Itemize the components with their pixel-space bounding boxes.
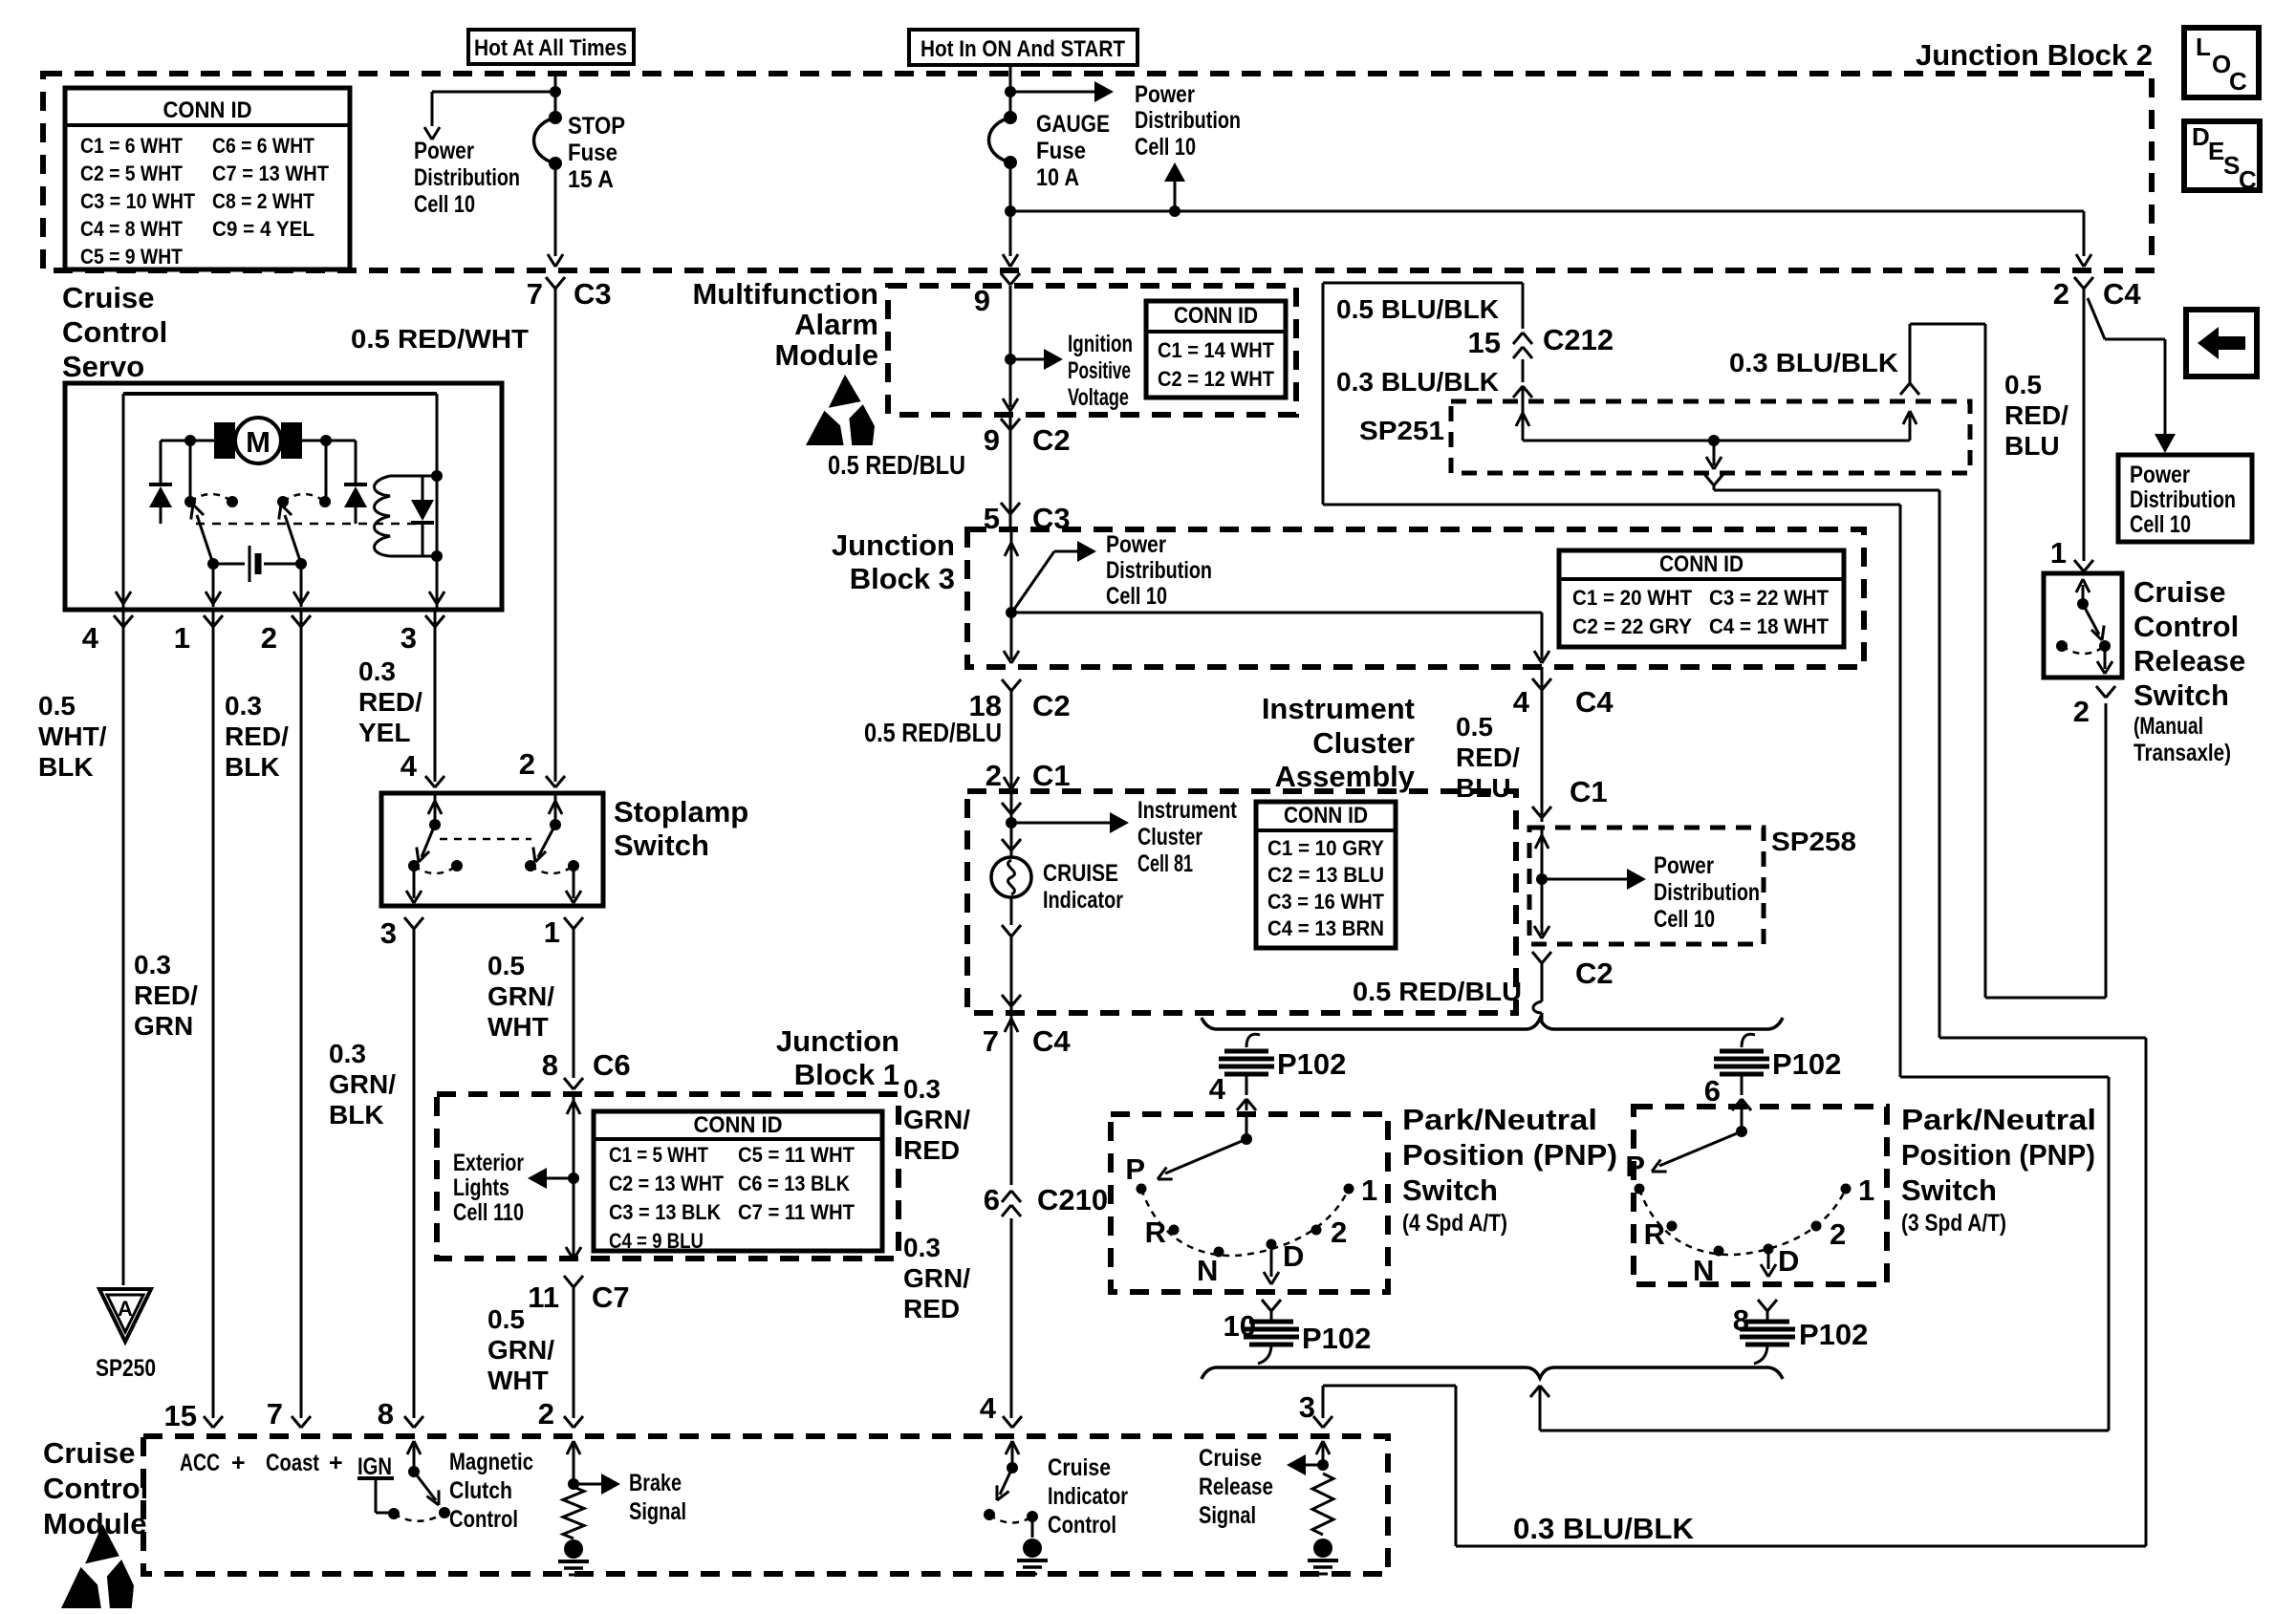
svg-text:Control: Control bbox=[43, 1472, 148, 1505]
svg-text:Distribution: Distribution bbox=[414, 164, 520, 191]
svg-text:Distribution: Distribution bbox=[1654, 879, 1760, 906]
svg-text:C210: C210 bbox=[1037, 1183, 1108, 1216]
svg-text:RED/: RED/ bbox=[134, 980, 198, 1010]
svg-text:Power: Power bbox=[1135, 81, 1195, 108]
svg-text:BLU: BLU bbox=[1456, 773, 1511, 803]
svg-text:Cluster: Cluster bbox=[1312, 726, 1415, 760]
svg-text:Instrument: Instrument bbox=[1262, 692, 1415, 725]
svg-text:C1 = 20 WHT: C1 = 20 WHT bbox=[1572, 586, 1693, 610]
svg-text:WHT: WHT bbox=[487, 1366, 549, 1395]
svg-text:0.5: 0.5 bbox=[38, 691, 76, 721]
svg-text:C4 = 8 WHT: C4 = 8 WHT bbox=[80, 217, 183, 241]
svg-text:Fuse: Fuse bbox=[568, 140, 617, 166]
svg-text:Exterior: Exterior bbox=[453, 1150, 524, 1176]
svg-text:C2 = 22 GRY: C2 = 22 GRY bbox=[1572, 614, 1692, 638]
svg-text:Power: Power bbox=[1654, 852, 1714, 879]
svg-text:7: 7 bbox=[527, 277, 543, 311]
svg-text:1: 1 bbox=[174, 621, 190, 655]
svg-text:Instrument: Instrument bbox=[1137, 797, 1238, 824]
svg-text:0.5 RED/WHT: 0.5 RED/WHT bbox=[351, 324, 529, 354]
svg-text:7: 7 bbox=[267, 1397, 283, 1431]
svg-text:P102: P102 bbox=[1277, 1047, 1346, 1081]
svg-text:CONN ID: CONN ID bbox=[1284, 803, 1368, 829]
svg-text:8: 8 bbox=[378, 1397, 394, 1431]
svg-text:7: 7 bbox=[983, 1024, 999, 1058]
svg-text:C6 = 13 BLK: C6 = 13 BLK bbox=[738, 1172, 850, 1195]
svg-text:N: N bbox=[1693, 1254, 1714, 1287]
svg-text:3: 3 bbox=[380, 916, 397, 950]
svg-text:0.5: 0.5 bbox=[1456, 712, 1493, 742]
svg-text:WHT: WHT bbox=[487, 1012, 549, 1042]
svg-text:C6 = 6 WHT: C6 = 6 WHT bbox=[212, 134, 314, 158]
svg-text:C3 = 10 WHT: C3 = 10 WHT bbox=[80, 189, 195, 213]
svg-text:0.5 RED/BLU: 0.5 RED/BLU bbox=[828, 450, 965, 480]
svg-text:2: 2 bbox=[2073, 695, 2090, 728]
svg-text:C2 = 13 BLU: C2 = 13 BLU bbox=[1267, 863, 1384, 887]
svg-text:BLK: BLK bbox=[38, 752, 94, 782]
svg-text:SP250: SP250 bbox=[96, 1355, 156, 1382]
svg-text:Hot In ON And START: Hot In ON And START bbox=[921, 36, 1125, 62]
svg-text:(3 Spd A/T): (3 Spd A/T) bbox=[1901, 1210, 2006, 1237]
svg-text:C9 = 4 YEL: C9 = 4 YEL bbox=[212, 217, 314, 241]
svg-text:C1: C1 bbox=[1032, 759, 1071, 792]
svg-text:Coast: Coast bbox=[266, 1450, 320, 1476]
svg-text:3: 3 bbox=[401, 621, 417, 655]
svg-text:6: 6 bbox=[1704, 1074, 1721, 1108]
svg-text:Power: Power bbox=[414, 138, 474, 164]
svg-text:2: 2 bbox=[538, 1397, 554, 1431]
svg-text:Stoplamp: Stoplamp bbox=[614, 795, 748, 829]
svg-text:4: 4 bbox=[1209, 1072, 1226, 1106]
svg-text:E: E bbox=[2208, 137, 2224, 165]
svg-text:C4: C4 bbox=[2103, 277, 2141, 311]
svg-text:Multifunction: Multifunction bbox=[692, 277, 878, 311]
svg-text:Clutch: Clutch bbox=[449, 1477, 512, 1504]
svg-text:CONN ID: CONN ID bbox=[163, 97, 252, 123]
svg-text:Voltage: Voltage bbox=[1068, 384, 1129, 411]
svg-text:1: 1 bbox=[2050, 536, 2067, 570]
svg-text:10 A: 10 A bbox=[1036, 164, 1079, 191]
svg-text:Alarm: Alarm bbox=[794, 308, 878, 341]
svg-text:Control: Control bbox=[449, 1506, 518, 1533]
svg-text:L: L bbox=[2196, 32, 2211, 61]
svg-text:BLK: BLK bbox=[225, 752, 280, 782]
svg-text:0.5 BLU/BLK: 0.5 BLU/BLK bbox=[1336, 294, 1499, 324]
svg-text:C4 = 9 BLU: C4 = 9 BLU bbox=[609, 1229, 704, 1253]
svg-text:D: D bbox=[1778, 1244, 1799, 1278]
svg-text:Distribution: Distribution bbox=[1135, 107, 1241, 134]
svg-text:R: R bbox=[1145, 1216, 1166, 1249]
svg-text:C3 = 22 WHT: C3 = 22 WHT bbox=[1709, 586, 1830, 610]
svg-text:C6: C6 bbox=[593, 1048, 631, 1082]
svg-text:C4 = 13 BRN: C4 = 13 BRN bbox=[1267, 916, 1384, 940]
svg-text:C8 = 2 WHT: C8 = 2 WHT bbox=[212, 189, 314, 213]
svg-text:C2: C2 bbox=[1032, 689, 1071, 722]
svg-text:15 A: 15 A bbox=[568, 166, 614, 193]
svg-text:Control: Control bbox=[62, 315, 167, 349]
svg-text:4: 4 bbox=[401, 749, 418, 783]
svg-text:C1 = 10 GRY: C1 = 10 GRY bbox=[1267, 836, 1384, 860]
svg-text:Module: Module bbox=[43, 1507, 147, 1540]
svg-text:Transaxle): Transaxle) bbox=[2134, 740, 2231, 766]
svg-text:R: R bbox=[1644, 1217, 1665, 1251]
svg-text:Cruise: Cruise bbox=[1048, 1454, 1111, 1481]
svg-text:Cruise: Cruise bbox=[1199, 1445, 1262, 1472]
svg-text:9: 9 bbox=[984, 423, 1000, 457]
svg-text:4: 4 bbox=[1513, 685, 1530, 719]
svg-text:RED/: RED/ bbox=[1456, 742, 1520, 772]
svg-text:C1 = 6 WHT: C1 = 6 WHT bbox=[80, 134, 183, 158]
svg-text:Indicator: Indicator bbox=[1043, 887, 1123, 914]
svg-text:BLU: BLU bbox=[2004, 431, 2060, 461]
svg-text:C1 = 14 WHT: C1 = 14 WHT bbox=[1158, 338, 1275, 362]
svg-text:Fuse: Fuse bbox=[1036, 138, 1086, 164]
svg-text:D: D bbox=[1283, 1239, 1304, 1273]
svg-text:Assembly: Assembly bbox=[1275, 760, 1416, 793]
svg-text:+: + bbox=[329, 1450, 343, 1476]
svg-text:C4 = 18 WHT: C4 = 18 WHT bbox=[1709, 614, 1830, 638]
svg-text:2: 2 bbox=[261, 621, 277, 655]
svg-text:ACC: ACC bbox=[180, 1450, 220, 1476]
svg-text:RED: RED bbox=[903, 1135, 960, 1165]
svg-text:Junction: Junction bbox=[832, 528, 955, 562]
svg-text:11: 11 bbox=[528, 1280, 559, 1314]
svg-text:0.5: 0.5 bbox=[487, 1304, 525, 1334]
svg-text:Cell 10: Cell 10 bbox=[1135, 134, 1196, 161]
svg-text:Power: Power bbox=[1106, 531, 1166, 558]
svg-text:Indicator: Indicator bbox=[1048, 1483, 1128, 1510]
svg-text:Park/Neutral: Park/Neutral bbox=[1901, 1103, 2096, 1136]
svg-text:4: 4 bbox=[980, 1391, 997, 1425]
svg-text:0.3: 0.3 bbox=[358, 656, 396, 686]
svg-text:Distribution: Distribution bbox=[1106, 557, 1212, 584]
svg-text:+: + bbox=[231, 1450, 246, 1476]
svg-text:Cell 81: Cell 81 bbox=[1137, 850, 1193, 877]
svg-text:SP251: SP251 bbox=[1359, 416, 1444, 445]
svg-text:0.5 RED/BLU: 0.5 RED/BLU bbox=[1353, 977, 1522, 1006]
svg-text:C212: C212 bbox=[1543, 323, 1614, 356]
svg-text:RED: RED bbox=[903, 1294, 960, 1323]
svg-text:8: 8 bbox=[1733, 1303, 1749, 1337]
svg-text:P102: P102 bbox=[1302, 1322, 1371, 1355]
svg-text:4: 4 bbox=[82, 621, 99, 655]
svg-text:C1 = 5 WHT: C1 = 5 WHT bbox=[609, 1143, 708, 1167]
svg-text:Power: Power bbox=[2130, 462, 2190, 488]
svg-text:Control: Control bbox=[1048, 1512, 1116, 1539]
svg-text:0.3: 0.3 bbox=[134, 950, 171, 979]
svg-text:C7: C7 bbox=[592, 1280, 630, 1314]
svg-text:Lights: Lights bbox=[453, 1174, 509, 1201]
svg-text:RED/: RED/ bbox=[358, 687, 422, 717]
svg-text:C3 = 16 WHT: C3 = 16 WHT bbox=[1267, 890, 1385, 914]
svg-text:Signal: Signal bbox=[1199, 1502, 1256, 1529]
svg-text:1: 1 bbox=[1361, 1173, 1377, 1207]
svg-text:WHT/: WHT/ bbox=[38, 721, 107, 751]
svg-text:0.3 BLU/BLK: 0.3 BLU/BLK bbox=[1336, 367, 1499, 397]
svg-text:C4: C4 bbox=[1032, 1024, 1071, 1058]
svg-text:C2: C2 bbox=[1575, 957, 1614, 990]
svg-text:C: C bbox=[2229, 67, 2247, 96]
svg-text:0.3 BLU/BLK: 0.3 BLU/BLK bbox=[1729, 348, 1898, 377]
svg-text:2: 2 bbox=[986, 759, 1002, 792]
svg-text:Magnetic: Magnetic bbox=[449, 1449, 533, 1475]
svg-text:Position (PNP): Position (PNP) bbox=[1901, 1138, 2095, 1172]
svg-text:P: P bbox=[1125, 1152, 1145, 1186]
svg-text:2: 2 bbox=[1830, 1217, 1846, 1251]
svg-text:C4: C4 bbox=[1575, 685, 1614, 719]
svg-text:STOP: STOP bbox=[568, 113, 625, 140]
svg-text:GRN/: GRN/ bbox=[903, 1263, 970, 1293]
svg-text:GRN: GRN bbox=[134, 1011, 193, 1041]
svg-text:YEL: YEL bbox=[358, 718, 410, 747]
svg-text:C2 = 5 WHT: C2 = 5 WHT bbox=[80, 161, 183, 185]
svg-text:A: A bbox=[118, 1297, 133, 1321]
svg-text:C3 = 13 BLK: C3 = 13 BLK bbox=[609, 1200, 721, 1224]
svg-text:Switch: Switch bbox=[614, 829, 709, 862]
svg-text:IGN: IGN bbox=[357, 1453, 392, 1480]
svg-text:C3: C3 bbox=[574, 277, 612, 311]
svg-text:Park/Neutral: Park/Neutral bbox=[1402, 1103, 1597, 1136]
svg-text:Switch: Switch bbox=[1901, 1173, 1997, 1207]
svg-text:1: 1 bbox=[1858, 1173, 1874, 1207]
svg-text:Cell 10: Cell 10 bbox=[414, 191, 475, 218]
svg-text:2: 2 bbox=[2053, 277, 2069, 311]
svg-text:0.3 BLU/BLK: 0.3 BLU/BLK bbox=[1513, 1512, 1695, 1545]
svg-text:Block 1: Block 1 bbox=[794, 1058, 899, 1091]
svg-text:0.5: 0.5 bbox=[487, 951, 525, 980]
svg-text:C7 = 13 WHT: C7 = 13 WHT bbox=[212, 161, 330, 185]
svg-text:GRN/: GRN/ bbox=[487, 981, 554, 1011]
svg-text:Position (PNP): Position (PNP) bbox=[1402, 1138, 1617, 1172]
svg-text:0.3: 0.3 bbox=[903, 1233, 941, 1262]
svg-text:Ignition: Ignition bbox=[1068, 331, 1133, 357]
svg-text:C2 = 12 WHT: C2 = 12 WHT bbox=[1158, 367, 1275, 391]
svg-text:C2 = 13 WHT: C2 = 13 WHT bbox=[609, 1172, 724, 1195]
svg-text:0.3: 0.3 bbox=[903, 1074, 941, 1104]
svg-text:SP258: SP258 bbox=[1771, 827, 1856, 856]
svg-text:RED/: RED/ bbox=[2004, 400, 2069, 430]
svg-text:Cruise: Cruise bbox=[43, 1436, 135, 1470]
svg-text:GRN/: GRN/ bbox=[487, 1335, 554, 1365]
svg-text:CONN ID: CONN ID bbox=[1659, 551, 1744, 577]
svg-text:Cell 10: Cell 10 bbox=[1654, 906, 1715, 933]
svg-text:S: S bbox=[2223, 151, 2240, 180]
svg-text:8: 8 bbox=[542, 1048, 558, 1082]
svg-text:9: 9 bbox=[974, 284, 990, 317]
svg-text:M: M bbox=[246, 425, 271, 459]
svg-text:BLK: BLK bbox=[329, 1100, 384, 1130]
svg-text:Control: Control bbox=[2134, 610, 2239, 643]
svg-text:C1: C1 bbox=[1570, 775, 1608, 808]
svg-text:Brake: Brake bbox=[629, 1470, 682, 1496]
svg-text:D: D bbox=[2192, 122, 2210, 151]
svg-text:15: 15 bbox=[164, 1399, 197, 1432]
svg-text:CONN ID: CONN ID bbox=[694, 1112, 783, 1138]
svg-text:Switch: Switch bbox=[1402, 1173, 1498, 1207]
svg-text:Release: Release bbox=[1199, 1474, 1273, 1500]
svg-text:GRN/: GRN/ bbox=[329, 1069, 396, 1099]
svg-text:Distribution: Distribution bbox=[2130, 486, 2236, 513]
svg-text:2: 2 bbox=[519, 747, 535, 781]
svg-text:(Manual: (Manual bbox=[2134, 713, 2203, 740]
svg-text:Cell 10: Cell 10 bbox=[1106, 583, 1167, 610]
svg-text:Signal: Signal bbox=[629, 1498, 686, 1525]
svg-text:(4 Spd A/T): (4 Spd A/T) bbox=[1402, 1210, 1507, 1237]
svg-text:P: P bbox=[1625, 1150, 1645, 1183]
svg-text:Cruise: Cruise bbox=[62, 281, 154, 314]
svg-text:Module: Module bbox=[775, 338, 879, 372]
svg-text:C2: C2 bbox=[1032, 423, 1071, 457]
svg-text:C5 = 11 WHT: C5 = 11 WHT bbox=[738, 1143, 856, 1167]
svg-text:C: C bbox=[2239, 165, 2257, 194]
svg-text:Switch: Switch bbox=[2134, 678, 2229, 712]
svg-text:P102: P102 bbox=[1772, 1047, 1841, 1081]
svg-text:Block 3: Block 3 bbox=[850, 562, 955, 595]
svg-text:0.3: 0.3 bbox=[225, 691, 262, 721]
svg-text:2: 2 bbox=[1331, 1216, 1347, 1249]
svg-text:GAUGE: GAUGE bbox=[1036, 111, 1110, 138]
svg-text:P102: P102 bbox=[1799, 1318, 1868, 1351]
svg-text:Cell 10: Cell 10 bbox=[2130, 511, 2191, 538]
svg-text:RED/: RED/ bbox=[225, 721, 289, 751]
svg-text:6: 6 bbox=[984, 1183, 1000, 1216]
svg-text:15: 15 bbox=[1468, 326, 1501, 359]
svg-text:Junction: Junction bbox=[776, 1024, 899, 1058]
svg-text:Cruise: Cruise bbox=[2134, 575, 2225, 609]
svg-text:Release: Release bbox=[2134, 644, 2245, 678]
svg-text:CRUISE: CRUISE bbox=[1043, 860, 1118, 887]
svg-text:Junction Block 2: Junction Block 2 bbox=[1916, 38, 2153, 72]
svg-text:0.3: 0.3 bbox=[329, 1039, 366, 1068]
svg-text:0.5: 0.5 bbox=[2004, 370, 2042, 399]
svg-text:C5 = 9 WHT: C5 = 9 WHT bbox=[80, 245, 183, 269]
svg-text:1: 1 bbox=[544, 915, 560, 949]
svg-text:N: N bbox=[1197, 1254, 1218, 1287]
svg-text:Servo: Servo bbox=[62, 350, 144, 383]
svg-text:Cluster: Cluster bbox=[1137, 824, 1202, 850]
svg-text:Hot At All Times: Hot At All Times bbox=[474, 35, 627, 61]
svg-text:Cell 110: Cell 110 bbox=[453, 1199, 524, 1226]
svg-text:C7 = 11 WHT: C7 = 11 WHT bbox=[738, 1200, 856, 1224]
svg-text:CONN ID: CONN ID bbox=[1174, 303, 1258, 329]
svg-text:3: 3 bbox=[1299, 1390, 1315, 1424]
svg-text:0.5 RED/BLU: 0.5 RED/BLU bbox=[864, 718, 1002, 747]
svg-text:10: 10 bbox=[1224, 1309, 1256, 1343]
svg-text:GRN/: GRN/ bbox=[903, 1105, 970, 1134]
svg-text:Positive: Positive bbox=[1068, 357, 1131, 384]
